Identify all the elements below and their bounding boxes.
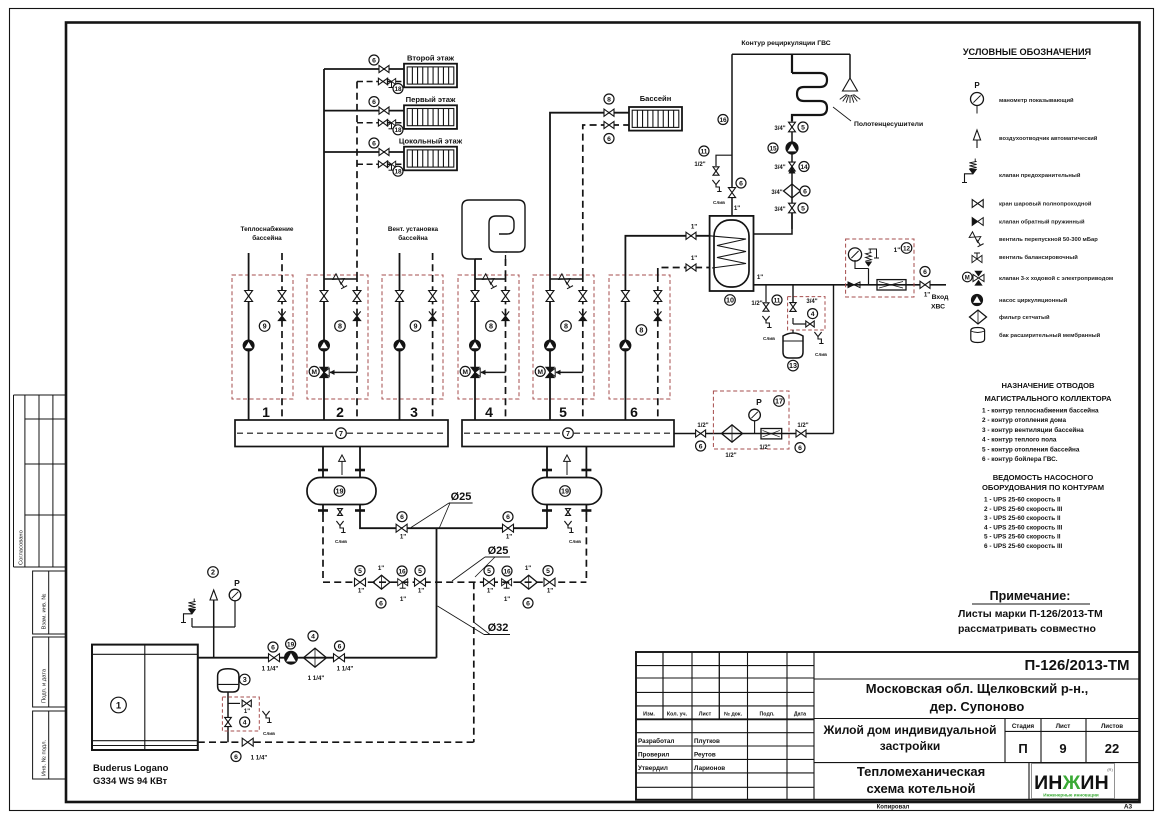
circuit 6 check valve	[654, 311, 661, 316]
circuit 3 risers up	[399, 253, 401, 275]
svg-text:МАГИСТРАЛЬНОГО КОЛЛЕКТОРА: МАГИСТРАЛЬНОГО КОЛЛЕКТОРА	[984, 394, 1112, 403]
svg-text:2 - контур отопления дома: 2 - контур отопления дома	[982, 417, 1066, 424]
svg-text:9: 9	[414, 322, 418, 331]
collector 2 centerline (dashed)	[464, 432, 674, 434]
circuit 5 return valve	[579, 291, 587, 302]
svg-text:19: 19	[287, 641, 295, 648]
svg-text:5: 5	[801, 205, 805, 212]
circuit box 5 (red dashed)	[533, 275, 594, 399]
svg-text:Инженерные инновации: Инженерные инновации	[1043, 793, 1099, 798]
svg-text:6: 6	[607, 136, 611, 143]
circuit 3 return valve	[429, 291, 437, 302]
circuit 4 pump	[470, 340, 481, 351]
svg-text:1": 1"	[378, 565, 384, 572]
svg-text:М: М	[965, 276, 970, 282]
svg-text:НАЗНАЧЕНИЕ ОТВОДОВ: НАЗНАЧЕНИЕ ОТВОДОВ	[1001, 381, 1095, 390]
return group 1 balancing valve 16	[398, 579, 408, 586]
boiler supply pipe	[198, 657, 437, 659]
svg-text:3/4": 3/4"	[774, 126, 785, 132]
circuit 2 return pipe (dashed)	[356, 275, 358, 420]
svg-text:А3: А3	[1124, 804, 1133, 811]
svg-text:5: 5	[487, 568, 491, 575]
radiator Первый этаж supply branch	[324, 110, 404, 112]
svg-text:Buderus Logano: Buderus Logano	[93, 763, 169, 774]
main return drop pipe (dashed)	[473, 582, 475, 742]
DHW expansion box 4 (red dashed)	[788, 297, 825, 330]
svg-text:Утвердил: Утвердил	[638, 765, 668, 772]
recirculation top header	[732, 53, 850, 55]
circuit 1 return valve	[278, 291, 286, 302]
radiator Второй этаж return valve with balancer 18	[378, 78, 387, 85]
legend icon safety valve	[969, 159, 976, 169]
circuit 1 pump	[243, 340, 254, 351]
svg-text:кран шаровый полнопроходной: кран шаровый полнопроходной	[999, 201, 1092, 208]
circuit 4 pump label 8	[486, 321, 497, 332]
svg-text:15: 15	[769, 145, 777, 152]
return group 2 valve 5	[484, 578, 495, 586]
svg-text:застройки: застройки	[880, 739, 940, 753]
svg-text:5: 5	[801, 124, 805, 131]
floor heating coil	[462, 200, 525, 259]
boiler supply valve 6 (second)	[334, 654, 345, 662]
svg-text:4: 4	[485, 404, 493, 420]
pool radiator Бассейн	[629, 107, 682, 131]
make-up drop from CW line	[833, 285, 835, 434]
svg-text:22: 22	[1105, 741, 1119, 756]
svg-text:4: 4	[243, 719, 247, 726]
circuit 5 return pipe (dashed)	[582, 275, 584, 420]
DHW return valve	[686, 264, 696, 271]
svg-text:вентиль перепускной 50-300 мБа: вентиль перепускной 50-300 мБар	[999, 236, 1098, 243]
circuit 3 pump label 9	[410, 321, 421, 332]
svg-text:P: P	[234, 578, 240, 588]
radiator Цокольный этаж supply branch	[324, 151, 404, 153]
CW protection box 12 (red dashed)	[846, 239, 914, 297]
svg-text:Вход: Вход	[932, 294, 949, 301]
title block revision rows	[636, 665, 814, 667]
return group 2 balancing valve 16	[502, 579, 512, 586]
svg-text:5: 5	[418, 568, 422, 575]
svg-text:рассматривать совместно: рассматривать совместно	[958, 623, 1096, 635]
circuit 2 supply pipe	[323, 275, 325, 420]
svg-text:9: 9	[263, 322, 267, 331]
circuit 4 return valve	[502, 291, 510, 302]
separator 1 air vent	[339, 455, 346, 461]
circuit 3 return pipe (dashed)	[432, 275, 434, 420]
svg-text:воздухоотводчик автоматический: воздухоотводчик автоматический	[999, 135, 1098, 142]
svg-text:8: 8	[564, 322, 568, 331]
radiator Цокольный этаж supply valve 6	[379, 148, 389, 155]
radiator Первый этаж	[404, 105, 457, 129]
CW gauge	[848, 248, 861, 261]
safety group manifold	[192, 626, 235, 628]
svg-text:3/4": 3/4"	[771, 190, 782, 196]
svg-text:Лист: Лист	[1056, 723, 1071, 730]
svg-text:5 - контур отопления бассейна: 5 - контур отопления бассейна	[982, 445, 1080, 453]
svg-text:Изм.: Изм.	[643, 712, 655, 718]
make-up filter	[722, 425, 743, 442]
circuit 3 pump	[394, 340, 405, 351]
legend icon expansion tank	[971, 328, 985, 343]
return group 1 filter 6	[373, 575, 390, 589]
svg-text:8: 8	[607, 96, 611, 103]
circuit 5 pump	[545, 340, 556, 351]
svg-text:1 1/4": 1 1/4"	[251, 755, 268, 762]
svg-text:клапан обратный пружинный: клапан обратный пружинный	[999, 219, 1085, 226]
title block location	[814, 718, 1140, 720]
radiator Второй этаж return branch (dashed)	[357, 81, 404, 83]
recirculation return pipe	[791, 121, 793, 229]
svg-text:6: 6	[234, 754, 238, 761]
circuit 5 supply valve	[546, 291, 554, 302]
radiator Первый этаж return valve with balancer 18	[378, 119, 387, 126]
DHW expansion drain valve	[792, 318, 794, 324]
title block object name	[814, 762, 1140, 764]
svg-text:Стадия: Стадия	[1012, 723, 1035, 730]
svg-text:6: 6	[271, 644, 275, 651]
svg-text:6 - контур бойлера ГВС.: 6 - контур бойлера ГВС.	[982, 455, 1058, 463]
legend icon 3-way valve	[973, 274, 984, 281]
circuit 4 mixing 3-way valve with actuator	[481, 371, 506, 373]
label Полотенцесушители with leader	[833, 107, 851, 121]
legend icon air vent	[973, 130, 980, 140]
return group 1 valve 5	[355, 578, 366, 586]
expansion box valve	[225, 717, 232, 726]
circuit 5 bypass overflow valve	[550, 278, 583, 280]
circuit 3 supply pipe	[399, 275, 401, 420]
svg-text:Теплоснабжение: Теплоснабжение	[241, 225, 294, 233]
svg-text:14: 14	[800, 164, 808, 171]
svg-text:Жилой дом индивидуальной: Жилой дом индивидуальной	[822, 723, 996, 737]
boiler supply shutoff valve 6	[269, 654, 280, 662]
make-up station box 17 (red dashed)	[713, 391, 789, 449]
circuit 6 return pipe (dashed)	[657, 275, 659, 420]
svg-text:9: 9	[1059, 741, 1066, 756]
svg-text:Проверил: Проверил	[638, 752, 669, 759]
svg-text:16: 16	[719, 117, 727, 124]
svg-text:4 - контур теплого пола: 4 - контур теплого пола	[982, 437, 1057, 444]
svg-text:1/2": 1/2"	[759, 445, 770, 451]
svg-text:вентиль балансировочный: вентиль балансировочный	[999, 254, 1078, 261]
title block document number	[814, 678, 1140, 680]
svg-text:Ø25: Ø25	[451, 491, 472, 503]
svg-text:1/2": 1/2"	[751, 301, 762, 307]
svg-text:2 - UPS 25-60 скорость III: 2 - UPS 25-60 скорость III	[984, 506, 1063, 513]
DHW outlet pipe	[754, 284, 947, 286]
svg-text:Вент. установка: Вент. установка	[388, 226, 439, 233]
circuit box 4 (red dashed)	[458, 275, 519, 399]
expansion box drain	[262, 711, 271, 723]
svg-text:2: 2	[211, 568, 215, 577]
svg-text:1": 1"	[506, 534, 512, 541]
circuit 1 return pipe (dashed)	[281, 275, 283, 420]
separator 2 bottom ports	[546, 505, 548, 529]
logo box INZHIN	[1028, 763, 1030, 800]
svg-text:Контур рециркуляции ГВС: Контур рециркуляции ГВС	[741, 40, 830, 47]
svg-text:Подп.: Подп.	[759, 712, 775, 718]
circuit 5 pump label 8	[561, 321, 572, 332]
air vent automatic	[210, 590, 217, 600]
separator 1 return drop (dashed)	[322, 515, 324, 582]
svg-text:6: 6	[923, 269, 927, 276]
circuit 1 pump label 9	[259, 321, 270, 332]
svg-text:Ø32: Ø32	[488, 622, 509, 634]
supply header valve 6 (left)	[396, 524, 407, 532]
circuit 4 risers to floor heating coil	[474, 259, 476, 275]
svg-text:G334 WS 94 КВт: G334 WS 94 КВт	[93, 776, 168, 787]
boiler supply header Ø25	[360, 521, 547, 528]
circuit 2 bypass overflow valve	[324, 278, 357, 280]
svg-text:Дата: Дата	[794, 712, 806, 718]
svg-text:1": 1"	[400, 534, 406, 541]
tank drain branch 11	[765, 285, 767, 302]
expansion branch	[792, 285, 794, 302]
radiator Цокольный этаж return valve with balancer 18	[378, 161, 387, 168]
svg-text:П-126/2013-ТМ: П-126/2013-ТМ	[1025, 657, 1130, 674]
left strip table top (Согласовано)	[13, 395, 15, 567]
recirc pump 15	[786, 142, 798, 154]
boiler return valve 6	[242, 738, 253, 746]
separator 2 connection pipes to collector	[546, 447, 548, 478]
recirc filter 6	[784, 184, 801, 198]
svg-text:Согласовано: Согласовано	[18, 530, 24, 565]
svg-text:8: 8	[338, 322, 342, 331]
expansion box branch valve	[228, 702, 240, 704]
svg-text:1": 1"	[924, 292, 930, 299]
circuit 3 check valve	[429, 311, 436, 316]
left strip section Инв. № подл.	[33, 711, 66, 779]
svg-text:10: 10	[726, 296, 734, 305]
boiler 1 Buderus	[92, 645, 198, 750]
svg-text:7: 7	[566, 429, 570, 438]
svg-text:Копировал: Копировал	[877, 805, 910, 811]
svg-text:Московская обл. Щелковский р-н: Московская обл. Щелковский р-н.,	[866, 681, 1088, 696]
circuit 4 supply pipe	[474, 275, 476, 420]
circuit 4 check valve	[502, 311, 509, 316]
pool return valve 6	[604, 121, 614, 128]
svg-text:1": 1"	[757, 274, 763, 281]
circuit 6 supply pipe	[624, 275, 626, 420]
svg-text:1: 1	[262, 404, 270, 420]
separator 2 air vent	[564, 455, 571, 461]
svg-text:16: 16	[503, 568, 511, 575]
svg-text:ОБОРУДОВАНИЯ ПО КОНТУРАМ: ОБОРУДОВАНИЯ ПО КОНТУРАМ	[982, 483, 1104, 492]
circuit box 6 (red dashed)	[609, 275, 670, 399]
supply/return collector 2	[462, 420, 674, 447]
circuit 1 check valve	[278, 311, 285, 316]
svg-text:18: 18	[394, 127, 402, 134]
svg-text:Первый этаж: Первый этаж	[406, 95, 456, 104]
svg-text:6: 6	[630, 404, 638, 420]
svg-text:схема котельной: схема котельной	[867, 781, 976, 796]
DHW supply valve	[686, 232, 696, 239]
svg-text:18: 18	[394, 169, 402, 176]
safety group label 2	[208, 567, 219, 578]
svg-text:Кол. уч.: Кол. уч.	[667, 712, 688, 718]
circuit 1 risers up	[248, 253, 250, 275]
circuit 2 pump	[319, 340, 330, 351]
legend icon check valve	[972, 218, 978, 226]
svg-text:П: П	[1018, 741, 1027, 756]
svg-text:1 1/4": 1 1/4"	[337, 666, 354, 673]
svg-text:бассейна: бассейна	[252, 234, 282, 242]
svg-text:Цокольный этаж: Цокольный этаж	[399, 137, 463, 146]
circuit 1 supply pipe	[248, 275, 250, 420]
CW check valve	[848, 282, 854, 288]
collector 2 label 7	[563, 428, 574, 439]
svg-text:М: М	[311, 369, 317, 376]
svg-text:1": 1"	[691, 224, 697, 231]
svg-text:клапан 3-х ходовой с электропр: клапан 3-х ходовой с электроприводом	[999, 275, 1113, 282]
svg-text:6: 6	[739, 180, 743, 187]
return group 1 valve 5 (second)	[415, 578, 426, 586]
title block stage-sheet columns	[1004, 719, 1006, 763]
svg-text:6: 6	[526, 600, 530, 607]
svg-text:6: 6	[372, 99, 376, 106]
svg-text:Слив: Слив	[713, 200, 725, 205]
svg-text:Слив: Слив	[263, 731, 275, 736]
towel radiator serpentine	[792, 54, 827, 121]
separator 1 drain valve	[338, 509, 343, 516]
svg-text:5: 5	[358, 568, 362, 575]
circuit 6 pump	[620, 340, 631, 351]
svg-text:1/2": 1/2"	[697, 423, 708, 429]
legend icon pump	[972, 295, 983, 306]
shower head	[849, 54, 851, 78]
svg-text:17: 17	[775, 397, 783, 406]
legend icon filter	[970, 310, 987, 324]
svg-text:Полотенцесушители: Полотенцесушители	[854, 121, 923, 128]
svg-text:1": 1"	[358, 588, 364, 595]
svg-text:4: 4	[811, 311, 815, 318]
svg-text:7: 7	[339, 429, 343, 438]
svg-text:ИНЖИН: ИНЖИН	[1034, 772, 1109, 794]
circuit 1 supply valve	[245, 291, 253, 302]
DHW tank coil	[710, 236, 746, 268]
circuit box 2 (red dashed)	[307, 275, 368, 399]
return header (dashed)	[323, 581, 586, 583]
radiator Второй этаж supply valve 6	[379, 65, 389, 72]
svg-text:Бассейн: Бассейн	[640, 94, 672, 103]
DHW top valve 6	[728, 188, 735, 198]
svg-text:3 - контур вентиляции бассейна: 3 - контур вентиляции бассейна	[982, 426, 1084, 434]
svg-text:1: 1	[116, 700, 122, 711]
svg-text:Листы марки П-126/2013-ТМ: Листы марки П-126/2013-ТМ	[958, 608, 1103, 620]
svg-text:3/4": 3/4"	[774, 207, 785, 213]
svg-text:1/2": 1/2"	[694, 162, 705, 168]
circuit 2 supply valve	[320, 291, 328, 302]
svg-text:(R): (R)	[1107, 767, 1113, 772]
svg-text:1": 1"	[244, 709, 250, 715]
svg-text:Подп. и дата: Подп. и дата	[41, 668, 47, 703]
main supply drop pipe	[436, 528, 438, 658]
svg-text:Слив: Слив	[569, 539, 581, 544]
circuit 2 check valve	[353, 311, 360, 316]
circuit box 3 (red dashed)	[382, 275, 443, 399]
DHW tank top pipe	[731, 198, 733, 216]
svg-text:3/4": 3/4"	[774, 165, 785, 171]
svg-text:6 - UPS 25-60 скорость III: 6 - UPS 25-60 скорость III	[984, 543, 1063, 550]
radiator Цокольный этаж return branch (dashed)	[357, 163, 404, 165]
circuit 2 return valve	[353, 291, 361, 302]
svg-text:12: 12	[903, 245, 911, 252]
boiler filter 4	[304, 648, 327, 667]
svg-text:манометр показывающий: манометр показывающий	[999, 97, 1074, 104]
svg-text:клапан предохранительный: клапан предохранительный	[999, 172, 1081, 179]
svg-text:6: 6	[379, 600, 383, 607]
svg-text:2: 2	[336, 404, 344, 420]
circuit 6 supply to DHW tank	[625, 236, 709, 275]
svg-text:5 - UPS 25-60 скорость II: 5 - UPS 25-60 скорость II	[984, 534, 1061, 541]
recirc valve 5 (bottom)	[789, 203, 796, 213]
svg-text:Второй этаж: Второй этаж	[407, 54, 455, 63]
svg-text:насос циркуляционный: насос циркуляционный	[999, 297, 1068, 304]
legend icon ball valve	[972, 200, 983, 208]
svg-text:1": 1"	[487, 588, 493, 595]
svg-text:1": 1"	[418, 588, 424, 595]
svg-text:5: 5	[559, 404, 567, 420]
circuit 5 mixing 3-way valve with actuator	[556, 371, 583, 373]
DHW expansion tank 13	[783, 333, 803, 358]
make-up water line	[674, 433, 834, 435]
circuit 2 mixing 3-way valve with actuator	[330, 371, 357, 373]
svg-text:Ø25: Ø25	[488, 545, 509, 557]
separator 1 drain	[336, 521, 345, 533]
svg-text:1/2": 1/2"	[725, 453, 736, 459]
recirc valve 5 (top)	[789, 122, 796, 132]
svg-text:11: 11	[774, 297, 781, 304]
svg-text:4: 4	[311, 633, 315, 640]
svg-text:фильтр сетчатый: фильтр сетчатый	[999, 314, 1050, 321]
separator 2 drain valve	[566, 509, 571, 516]
svg-text:19: 19	[336, 487, 344, 496]
svg-text:6: 6	[372, 57, 376, 64]
radiator Первый этаж return branch (dashed)	[357, 122, 404, 124]
circuit 3 supply valve	[396, 291, 404, 302]
circuit 2 supply riser to floors	[323, 69, 325, 275]
svg-text:бассейна: бассейна	[398, 234, 428, 242]
rotated label Согласовано	[18, 530, 24, 565]
title block outline	[636, 652, 1140, 800]
svg-text:16: 16	[398, 568, 406, 575]
CW inlet valve 6	[920, 281, 930, 288]
circuit 5 check valve	[579, 311, 586, 316]
svg-text:1": 1"	[547, 588, 553, 595]
radiator Цокольный этаж	[404, 147, 457, 171]
circuit 5 supply riser to pool radiator	[550, 113, 629, 275]
svg-text:1 - UPS 25-60 скорость II: 1 - UPS 25-60 скорость II	[984, 497, 1061, 504]
radiator Второй этаж	[404, 64, 457, 88]
title block revision columns	[662, 652, 664, 719]
radiator Первый этаж supply valve 6	[379, 107, 389, 114]
separator 2 return drop (dashed)	[585, 515, 587, 582]
recirculation riser	[731, 54, 733, 187]
DHW tank 10	[710, 216, 754, 291]
svg-text:1/2": 1/2"	[797, 423, 808, 429]
circuit 6 pump label 8	[636, 325, 647, 336]
circuit 5 return riser (dashed)	[583, 125, 629, 275]
svg-text:11: 11	[701, 148, 708, 155]
svg-text:6: 6	[372, 140, 376, 147]
svg-text:1": 1"	[400, 596, 406, 603]
supply header valve 6 (right)	[503, 524, 514, 532]
collector 1 label 7	[336, 428, 347, 439]
circuit 6 supply valve	[621, 291, 629, 302]
svg-text:Лист: Лист	[699, 712, 712, 718]
svg-text:1": 1"	[504, 596, 510, 603]
pool supply valve 8	[604, 109, 614, 116]
svg-text:8: 8	[489, 322, 493, 331]
